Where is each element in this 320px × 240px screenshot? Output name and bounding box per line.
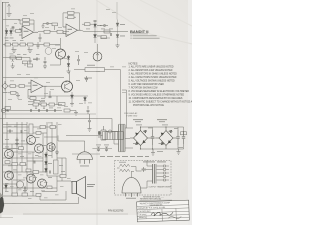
wire U2 out xyxy=(81,30,84,31)
capacitor C6 xyxy=(77,55,80,65)
ground G8 xyxy=(74,111,78,116)
wire pa vline x66b xyxy=(65,158,67,176)
svg-text:7. ROTATION SHOWN CCW: 7. ROTATION SHOWN CCW xyxy=(129,87,159,90)
label above title block underline xyxy=(140,199,173,201)
wire U1 out xyxy=(38,31,44,33)
label specks pa xyxy=(8,123,71,204)
labels row y100b xyxy=(41,99,45,102)
svg-text:CK DATE: CK DATE xyxy=(139,213,148,216)
labels row y108 xyxy=(49,107,53,110)
label D5 xyxy=(120,23,125,26)
label row under power supply xyxy=(100,155,149,158)
label U3 xyxy=(33,85,38,86)
resistor R34 xyxy=(60,175,66,178)
wire dome crossing xyxy=(72,153,100,155)
ground G6 xyxy=(16,93,20,99)
ground G3 xyxy=(116,44,120,48)
power transformer T1 xyxy=(119,125,126,152)
wire Q3 base xyxy=(60,85,63,87)
label R20 xyxy=(87,64,95,67)
transistor Q8 xyxy=(27,174,36,183)
ground G23 xyxy=(43,65,47,69)
resistor R39 xyxy=(33,171,39,174)
capacitor C29 xyxy=(50,171,51,174)
ground G11 xyxy=(42,24,45,29)
transistor Q7 xyxy=(5,171,14,180)
wire pa vline x78 xyxy=(78,197,80,204)
resistor R41 zigzag xyxy=(120,169,130,172)
svg-text:BANDIT II: BANDIT II xyxy=(130,29,148,34)
resistor R31 xyxy=(40,126,46,129)
diode D12 xyxy=(45,168,48,173)
wire stub y38 xyxy=(100,37,110,39)
label D1 value xyxy=(5,37,9,40)
resistor R32 xyxy=(50,126,56,129)
wire pa vline x52 xyxy=(51,122,53,158)
diode D9 xyxy=(84,96,87,104)
resistor R28 xyxy=(82,23,93,26)
capacitor C33 xyxy=(88,114,91,127)
label U1 xyxy=(24,31,29,32)
current source Q11 xyxy=(93,52,102,61)
resistor R33 bias xyxy=(54,160,59,174)
wire pa hline y203.5 xyxy=(3,203,79,205)
resistor R43 xyxy=(19,147,24,150)
svg-text:2. ALL RESISTORS 1/4W UNLESS N: 2. ALL RESISTORS 1/4W UNLESS NOTED xyxy=(129,69,173,72)
signature scrawl xyxy=(151,212,173,216)
svg-text:6. LAST REF DESIGNATOR USED: 6. LAST REF DESIGNATOR USED xyxy=(129,83,165,86)
resistor R17 xyxy=(8,91,18,94)
label dome xyxy=(80,165,89,168)
wire pa vline x57 xyxy=(56,122,58,160)
capacitor C25 xyxy=(142,167,147,172)
wire ps top bus xyxy=(141,127,184,138)
capacitor C15 xyxy=(43,22,52,25)
capacitor C31 filter xyxy=(176,130,179,145)
capacitor C1 xyxy=(12,26,15,30)
label U2 xyxy=(68,29,73,30)
transformer end caps xyxy=(119,124,126,152)
wire pa hline y200 xyxy=(40,199,66,201)
label specks top area xyxy=(6,9,126,109)
label speaker xyxy=(87,184,95,187)
AC plug P1 xyxy=(98,126,106,140)
resistor R44 xyxy=(5,161,10,164)
transistor Q1 xyxy=(56,49,66,59)
wire inner left rail xyxy=(5,3,7,119)
resistor R29 xyxy=(101,36,107,39)
resistor R22 xyxy=(41,103,47,106)
capacitor C23 xyxy=(97,147,100,152)
wire y90 stub xyxy=(122,89,127,91)
svg-text:OUTPUT TRANSFORMER: OUTPUT TRANSFORMER xyxy=(149,186,172,189)
wire pa hline y144 xyxy=(3,143,35,145)
transistor Q6 xyxy=(5,150,14,159)
resistor R1 xyxy=(18,19,34,22)
wire pa hline y180 xyxy=(13,179,25,181)
resistor R7 xyxy=(13,43,19,46)
title underline xyxy=(130,33,148,35)
capacitor C27 xyxy=(16,138,19,143)
label J1 xyxy=(3,91,8,94)
svg-text:APPR DE: APPR DE xyxy=(139,216,148,219)
wire y104 bus xyxy=(28,104,62,106)
resistor R37 xyxy=(12,193,18,196)
label C7 xyxy=(33,58,37,61)
wire pa vline x47 xyxy=(46,122,48,176)
diode D3 xyxy=(94,22,97,32)
svg-text:8. VOLTAGES MEASURED W/ ELECTR: 8. VOLTAGES MEASURED W/ ELECTRONIC VOLTM… xyxy=(129,90,190,93)
resistor R14 xyxy=(28,64,33,67)
wire Q1 emitter xyxy=(60,59,62,65)
capacitor C5 top of D3 xyxy=(94,21,97,22)
resistor R9 xyxy=(28,43,34,46)
wire reverb send down xyxy=(120,70,122,131)
resistor R30 xyxy=(29,124,33,134)
label row y40c xyxy=(20,39,24,42)
ground G22 xyxy=(88,127,92,132)
ground G20 xyxy=(151,149,155,156)
wire bus y77.5 xyxy=(3,77,64,79)
diode D2 xyxy=(10,28,13,36)
transformer core lines xyxy=(121,125,123,152)
wire pa hline y191.5 xyxy=(42,191,57,193)
labels near dome xyxy=(96,144,109,147)
capacitor C30 filter xyxy=(151,130,154,145)
input jack J2 xyxy=(1,108,9,112)
wire x58 drop2 xyxy=(57,136,59,142)
wire pa hline y184 xyxy=(3,183,16,185)
label row y40b xyxy=(13,39,17,42)
wire y96 bus xyxy=(28,95,88,97)
wire pa hline y161 xyxy=(27,160,43,162)
capacitor C12 xyxy=(55,109,56,112)
svg-text:5. ALL VOLTAGES SHOWN UNLESS N: 5. ALL VOLTAGES SHOWN UNLESS NOTED xyxy=(129,80,175,83)
wire pa vline x66c xyxy=(65,191,67,200)
resistor R35 xyxy=(12,163,18,166)
capacitor C21 xyxy=(52,146,53,149)
wire pa hline y176 xyxy=(47,175,66,177)
fold crease top right xyxy=(96,0,192,44)
capacitor C10 xyxy=(39,109,40,112)
transistor Q3 xyxy=(62,81,73,92)
subtitle line 2 xyxy=(131,38,160,39)
wire y65 bus xyxy=(50,64,61,66)
label D2 value xyxy=(10,37,14,40)
ground G2 xyxy=(28,47,33,53)
wire y114 rail xyxy=(3,113,96,115)
bridge BR1 diodes xyxy=(135,130,146,145)
svg-text:NOTES: NOTES xyxy=(129,62,138,66)
resistor R47 xyxy=(47,186,52,189)
wire left rail xyxy=(1,2,3,210)
wire bus y44.5 xyxy=(3,44,60,46)
capacitor C16 xyxy=(33,58,40,61)
resistor R21 xyxy=(33,103,39,106)
op-amp U3 xyxy=(28,80,47,93)
title block frame xyxy=(137,200,190,222)
label D3 xyxy=(97,24,102,27)
wire pa hline y188 xyxy=(3,187,57,189)
diode D10 xyxy=(45,152,48,160)
labels bridge corners xyxy=(133,131,173,144)
wire y57.5 xyxy=(3,57,30,59)
potentiometer VR4 xyxy=(5,107,11,113)
wire speaker feed y181 xyxy=(57,180,71,182)
resistor R13 xyxy=(104,30,110,33)
wire top right drop xyxy=(116,2,118,20)
junction dots power supply xyxy=(140,126,167,149)
wire connector drop x112 xyxy=(111,119,113,132)
resistor R2 xyxy=(20,20,34,31)
resistor R20 reverb drive xyxy=(74,68,121,72)
resistor R42 xyxy=(36,132,41,135)
wire x57 drop xyxy=(56,96,58,105)
label cluster y54 xyxy=(17,53,40,56)
ground G12 xyxy=(15,143,19,147)
ground G1 xyxy=(12,47,17,53)
transistor Q12 xyxy=(47,143,55,151)
wire U3 feedback xyxy=(28,86,45,98)
capacitor C24 xyxy=(105,147,108,152)
capacitor C14 xyxy=(39,34,42,43)
resistor R48 xyxy=(59,103,66,106)
wire section divider y118.5 xyxy=(0,118,112,120)
wire pa vline x22 xyxy=(21,122,23,172)
wire Q11 top xyxy=(97,44,99,52)
resistor R23 xyxy=(49,103,55,106)
diode D11 xyxy=(45,160,48,168)
transistor Q5 xyxy=(35,144,44,153)
resistor R5 xyxy=(57,30,69,33)
wire connector left xyxy=(66,135,103,137)
capacitor C7 xyxy=(29,58,32,65)
wire pa vline x12 xyxy=(11,144,13,196)
wire pa hline y137 xyxy=(44,136,57,138)
capacitor C13 xyxy=(87,106,90,114)
wire Q1 collector xyxy=(60,38,62,49)
labels row y100 xyxy=(33,99,37,102)
bridge BR2 diodes xyxy=(161,130,172,145)
wire T1 secondary leads xyxy=(125,128,133,148)
op-amp U1 xyxy=(19,26,38,39)
wire top tick xyxy=(2,2,9,4)
wire fs links xyxy=(117,167,153,178)
wire ps bottom bus xyxy=(141,144,184,149)
svg-text:CK DATE Bell: CK DATE Bell xyxy=(138,210,150,213)
svg-text:3. ALL RESISTORS IN OHMS UNLES: 3. ALL RESISTORS IN OHMS UNLESS NOTED xyxy=(129,73,178,76)
svg-text:10. COMPONENTS DESIGNATED BY D: 10. COMPONENTS DESIGNATED BY DC DECADES xyxy=(129,97,183,100)
power flag top-left xyxy=(8,4,11,13)
wire U3 out right xyxy=(47,85,62,87)
wire speaker top xyxy=(71,181,72,183)
wire dome drop xyxy=(84,141,86,152)
diode D6 xyxy=(116,32,119,45)
connector J10 hatched xyxy=(103,132,124,140)
label U2 out row xyxy=(86,28,113,31)
resistor R18 xyxy=(30,97,36,100)
potentiometer VR3 xyxy=(43,106,45,109)
capacitor C11 xyxy=(47,109,48,112)
svg-text:9. VOLTAGES ARE DC UNLESS OTHE: 9. VOLTAGES ARE DC UNLESS OTHERWISE NOTE… xyxy=(129,94,185,97)
transistor Q10 xyxy=(16,181,23,188)
resistor R36 xyxy=(20,163,26,166)
wire mid bus y31.5 xyxy=(84,31,128,33)
wire pa vline x27 xyxy=(26,122,28,190)
diode D7a xyxy=(67,55,70,62)
wire T1 primary leads xyxy=(114,132,119,145)
labels pa cluster xyxy=(5,137,65,192)
wire pa vline x57b xyxy=(56,176,58,192)
svg-text:4. ALL CAPACITORS IN MFD UNLES: 4. ALL CAPACITORS IN MFD UNLESS NOTED xyxy=(129,76,177,79)
label D6 xyxy=(120,35,125,38)
wire dome feed y141 xyxy=(58,140,85,142)
wire pa hline y158 xyxy=(3,157,43,159)
wire pa hline y133 xyxy=(3,132,47,134)
capacitor C32 filter xyxy=(182,131,185,144)
subtitle line 1 xyxy=(131,35,157,36)
ground G13 xyxy=(23,190,27,194)
wire pa hline y148.5 xyxy=(3,148,22,150)
resistor R26 xyxy=(17,57,22,60)
capacitor C18 xyxy=(111,33,112,36)
capacitor C19 xyxy=(49,91,52,98)
capacitor C22 xyxy=(34,161,35,164)
capacitor C20 xyxy=(21,130,22,133)
resistor R25 xyxy=(52,23,58,30)
resistor R12 feedback U2 xyxy=(65,16,76,19)
resistor R19 xyxy=(28,100,45,103)
resistor R38 xyxy=(22,193,28,196)
wire pa hline y196 xyxy=(3,195,40,197)
capacitor C8 xyxy=(84,76,92,82)
corner blotch fade xyxy=(0,193,3,199)
resistor R24 xyxy=(64,109,76,112)
ground G5 xyxy=(11,63,15,69)
dashed enclosure xyxy=(115,161,172,196)
fuse F1 xyxy=(106,130,114,133)
resistor R27 xyxy=(23,61,28,66)
transistor Q9 xyxy=(38,179,47,188)
wire pa hline y172 xyxy=(3,171,46,173)
wire pa vline x7 xyxy=(6,122,8,150)
ground G4 xyxy=(67,69,71,74)
diode D1 xyxy=(5,28,8,36)
resistor R6 xyxy=(5,43,11,46)
T2 terminal squares xyxy=(164,165,170,181)
label Q1 xyxy=(55,44,60,47)
label zigzag xyxy=(119,161,126,164)
resistor R40 zigzag xyxy=(120,164,130,167)
diode D4 xyxy=(94,32,97,44)
resistor R45 xyxy=(26,169,31,172)
footswitch dome FS1 xyxy=(122,178,141,198)
input jack J1 xyxy=(2,81,10,91)
svg-text:11. SCHEMATIC SUBJECT TO CHANG: 11. SCHEMATIC SUBJECT TO CHANGE WITHOUT … xyxy=(129,101,193,104)
diode D7b xyxy=(67,62,70,69)
wire bottom border y214 xyxy=(23,213,128,215)
ground G7 xyxy=(70,102,74,106)
svg-text:PORTIONS DEL W/O NOTICE: PORTIONS DEL W/O NOTICE xyxy=(133,105,164,107)
title block rows xyxy=(137,205,190,222)
ground G0 xyxy=(7,14,12,17)
diode D8 xyxy=(71,92,74,102)
label row y40 xyxy=(5,39,9,42)
op-amp U2 xyxy=(63,24,81,37)
wire Q3 collector up xyxy=(69,72,71,84)
transistor Q2 small xyxy=(45,48,52,55)
signature scrawl 2 xyxy=(168,216,181,218)
potentiometer VR2 xyxy=(35,106,37,109)
svg-text:1. ALL POTS ARE LINEAR UNLESS: 1. ALL POTS ARE LINEAR UNLESS NOTED xyxy=(129,66,174,69)
output transformer T2 xyxy=(153,164,155,184)
resistor R10 xyxy=(44,43,50,46)
resistor R46 xyxy=(36,194,41,197)
resistor R8 xyxy=(20,43,26,46)
resistor R16 xyxy=(19,85,31,88)
capacitor C17 xyxy=(100,24,108,27)
wire pa hline y165 xyxy=(3,164,27,166)
wire pa hline y127 xyxy=(3,126,57,128)
wire pa vline x17 xyxy=(16,122,18,196)
labels ps xyxy=(136,125,183,152)
ground G10 xyxy=(55,150,59,155)
transistor Q4 xyxy=(27,136,36,145)
wire reverb return down xyxy=(126,90,128,128)
resistor R11 feedback U2 xyxy=(63,12,80,31)
capacitor C9 xyxy=(31,109,32,112)
wire pa vline x43 xyxy=(42,133,44,172)
label VR1 xyxy=(10,53,14,56)
labels above bridges xyxy=(133,119,167,122)
resistor R15 xyxy=(10,85,19,88)
wire y110.5 chain xyxy=(3,110,62,112)
ground G21 xyxy=(177,149,181,155)
capacitor C4 xyxy=(37,42,40,49)
footswitch jack dome FS0 xyxy=(77,152,92,164)
diode D13 xyxy=(5,183,8,191)
capacitor C28 xyxy=(25,187,26,190)
T2 core xyxy=(155,164,158,184)
wire pa vline x33b xyxy=(32,152,34,196)
left paper edge shading xyxy=(0,0,2,218)
label FS1 xyxy=(126,197,136,200)
wire pa vline x62 xyxy=(61,158,63,181)
bridge rectifier BR2 xyxy=(156,127,177,149)
resistors row y44 xyxy=(3,42,60,49)
resistor R4 xyxy=(44,30,57,33)
wire dome right xyxy=(92,148,112,150)
diode D5 xyxy=(116,20,119,32)
wire pa hline y158b xyxy=(57,157,66,159)
resistor R49 xyxy=(181,131,187,135)
capacitor C34 xyxy=(44,57,47,65)
wire bottom-left dash xyxy=(0,217,13,219)
corner blotch bottom-left xyxy=(0,196,4,214)
potentiometer VR1 xyxy=(10,56,16,62)
vertical center fold xyxy=(96,0,98,225)
resistor R3 xyxy=(13,30,22,33)
label D4 xyxy=(97,35,102,38)
wire pa hline y124.5 xyxy=(3,124,27,126)
wire pa vline x40 xyxy=(39,196,41,200)
svg-text:REVERB RETURN 8Ω: REVERB RETURN 8Ω xyxy=(140,199,162,201)
T2 taps xyxy=(141,160,164,188)
svg-text:3 WIRE GND: 3 WIRE GND xyxy=(126,115,138,117)
speaker LS1 xyxy=(72,177,86,199)
capacitor C26 xyxy=(7,130,13,133)
label fs top right xyxy=(143,161,166,164)
